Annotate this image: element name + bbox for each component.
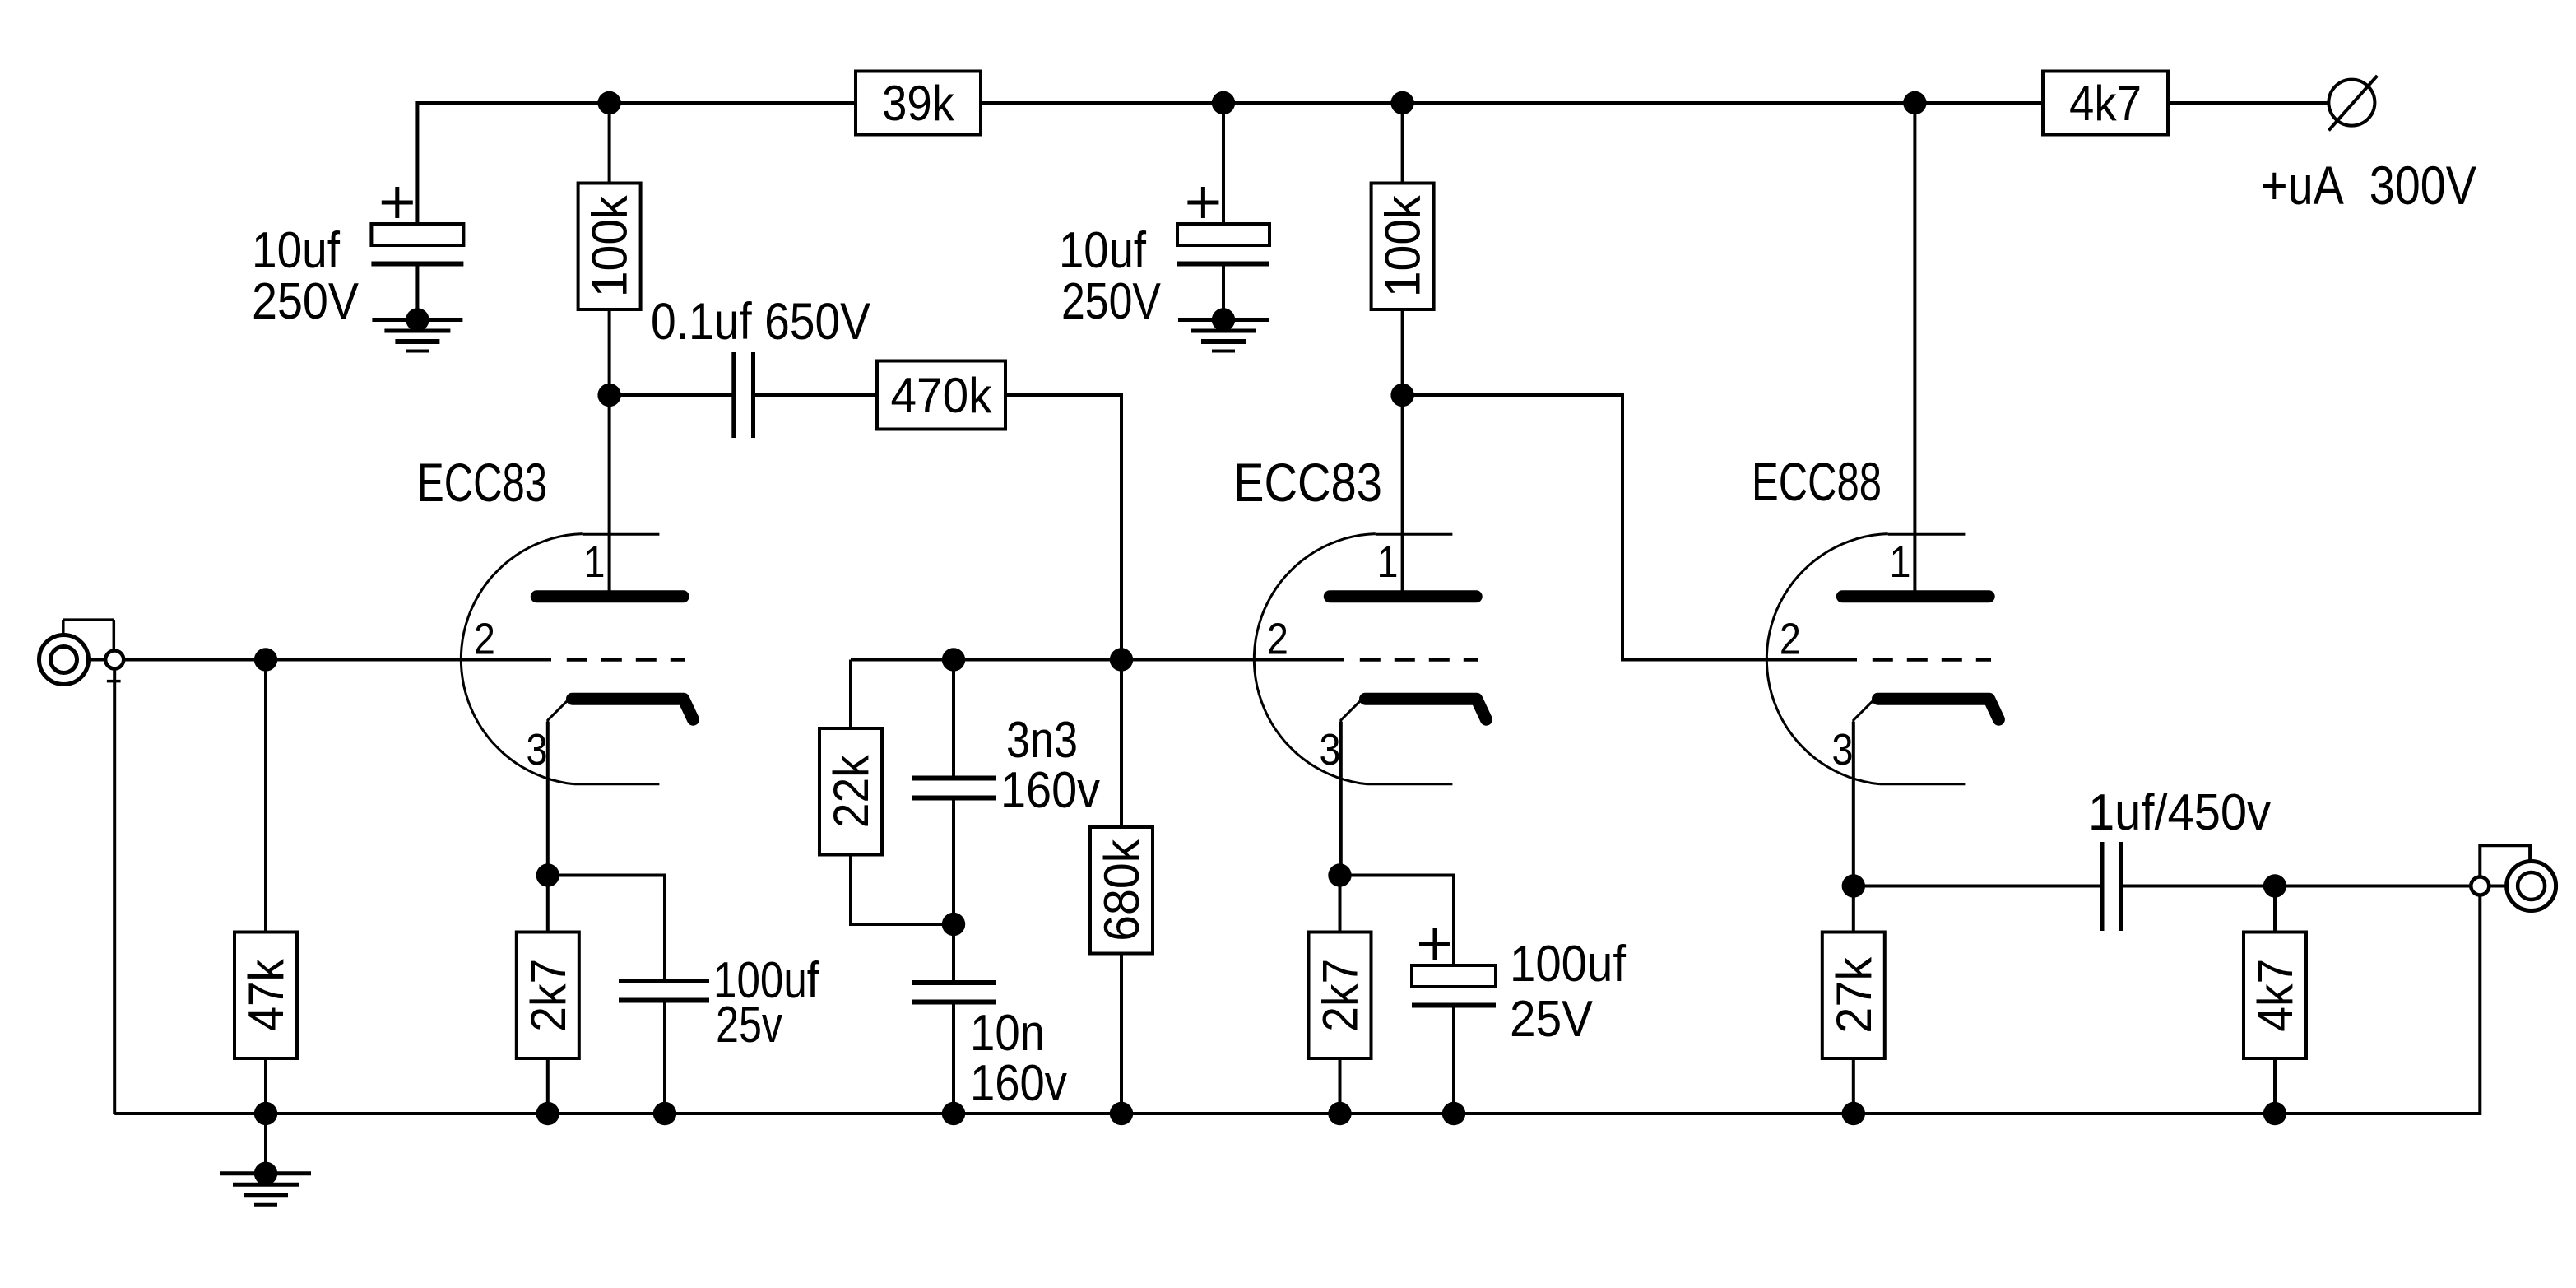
node top rail / ECC88 plate <box>1903 91 1926 114</box>
wire V2 cathode node to bypass cap <box>1340 876 1455 966</box>
wire 4k7 R11 top lead <box>2273 886 2277 932</box>
node rail / 27k <box>1842 1102 1865 1125</box>
svg-text:160v: 160v <box>970 1055 1067 1112</box>
wire 3n3 bottom lead to node <box>952 800 955 924</box>
node output / 4k7 load <box>2263 874 2286 897</box>
wire 2k7 R4 bottom lead <box>546 1058 550 1114</box>
output jack J2 (RCA) <box>2471 845 2555 910</box>
label C1 value 10uf <box>252 222 341 279</box>
svg-text:22k: 22k <box>824 754 879 828</box>
wire input jack sleeve tick <box>107 680 121 683</box>
wire ECC88 plate lead from top rail <box>1913 103 1916 597</box>
svg-text:250V: 250V <box>1061 273 1162 330</box>
wire 100k R6 top lead <box>1401 103 1404 184</box>
capacitor C4 10uf 250V (electrolytic, right PSU) <box>1177 187 1269 264</box>
svg-text:ECC88: ECC88 <box>1752 451 1882 512</box>
wire 2k7 R8 top lead <box>1339 876 1342 932</box>
label V1 tube type ECC83 <box>417 452 547 513</box>
wire grid node row (22k top to V2 grid) <box>851 658 1344 662</box>
svg-text:250V: 250V <box>252 273 360 330</box>
wire V2 cathode lead <box>1339 722 1343 876</box>
wire output node to 1uf cap <box>1854 885 2100 888</box>
triode V2 ECC83 (second stage) <box>1254 534 1486 784</box>
wire 22k top lead <box>849 660 852 729</box>
wire 47k top lead from input node <box>264 660 267 932</box>
svg-text:+uA 300V: +uA 300V <box>2261 155 2476 216</box>
capacitor C6 10n 160v (RIAA) <box>912 983 996 1002</box>
wire 680k bottom lead <box>1120 953 1123 1114</box>
svg-text:4k7: 4k7 <box>2248 959 2303 1032</box>
svg-text:10n: 10n <box>970 1005 1045 1062</box>
svg-text:470k: 470k <box>891 368 993 423</box>
capacitor C2 0.1uf 650V (coupling) <box>734 352 754 438</box>
wire plate node V1 to coupling cap <box>610 393 734 397</box>
wire input jack sleeve down <box>113 669 116 1114</box>
wire 470k to grid node corner <box>1005 395 1121 660</box>
svg-text:680k: 680k <box>1094 839 1149 942</box>
ground symbol under 10uf C1 <box>372 308 462 351</box>
wire top rail left segment <box>417 103 856 224</box>
resistor R1 39k (top rail) <box>856 72 981 135</box>
wire 10n top lead <box>952 924 955 980</box>
wire 27k top lead <box>1852 886 1855 932</box>
label C8 value 100uf <box>1510 936 1627 993</box>
label C2 value 0.1uf 650V <box>651 293 870 351</box>
wire 100k R2 bottom lead to plate node <box>608 308 611 395</box>
svg-text:4k7: 4k7 <box>2069 76 2142 131</box>
node top rail / 10uf C4 <box>1212 91 1235 114</box>
resistor R11 4k7 (B+ dropper) <box>2043 72 2168 135</box>
svg-text:ECC83: ECC83 <box>1233 452 1382 513</box>
label C4 value 10uf <box>1059 222 1147 279</box>
node V3 cathode output <box>1842 874 1865 897</box>
svg-text:100uf: 100uf <box>1510 936 1627 993</box>
node rail / 2k7 R8 <box>1328 1102 1351 1125</box>
wire 2k7 R4 top lead <box>546 876 550 932</box>
wire V2 plate lead <box>1401 395 1404 597</box>
resistor R10 27k (V3 cathode) <box>1822 932 1885 1059</box>
wire input signal to V1 grid <box>77 658 551 662</box>
svg-text:2k7: 2k7 <box>521 959 576 1032</box>
node 3n3 top grid row <box>942 648 965 671</box>
resistor R6 22k (RIAA network) <box>819 728 882 855</box>
svg-text:ECC83: ECC83 <box>417 452 547 513</box>
resistor R9 2k7 (V2 cathode) <box>1309 932 1372 1059</box>
resistor R7 680k (RIAA network) <box>1090 827 1153 954</box>
resistor R5 2k7 (V1 cathode) <box>517 932 579 1059</box>
svg-text:39k: 39k <box>882 76 955 131</box>
node 680k top grid row <box>1110 648 1133 671</box>
svg-text:25v: 25v <box>716 997 782 1053</box>
wire 2k7 R8 bottom lead <box>1339 1058 1342 1114</box>
svg-text:160v: 160v <box>1000 762 1100 819</box>
wire top rail middle segment (39k to 4k7) <box>981 101 2043 105</box>
wire 10n bottom lead <box>952 1004 955 1114</box>
node V1 plate <box>597 384 620 407</box>
node rail / 100uf C5 <box>653 1102 676 1125</box>
wire 1uf cap to output jack <box>2123 885 2472 888</box>
wire input node to ground <box>264 1114 267 1174</box>
wire 680k top lead <box>1120 660 1123 828</box>
node V2 cathode <box>1328 863 1351 886</box>
triode V3 ECC88 (third stage) <box>1766 534 1998 784</box>
svg-text:1uf/450v: 1uf/450v <box>2088 784 2271 841</box>
node top rail / 100k R6 <box>1390 91 1413 114</box>
label V3 tube type ECC88 <box>1752 451 1882 512</box>
wire top rail right segment (4k7 to output terminal) <box>2168 101 2329 105</box>
wire V3 cathode lead <box>1852 722 1855 886</box>
node rail / 2k7 R4 <box>536 1102 559 1125</box>
label C3 voltage 160v <box>1000 762 1100 819</box>
node A input grid <box>254 648 277 671</box>
ground symbol under 10uf C4 <box>1178 308 1269 351</box>
node V2 plate <box>1390 384 1413 407</box>
svg-text:25V: 25V <box>1510 991 1594 1048</box>
label terminal +uA 300V <box>2261 155 2476 216</box>
wire V1 cathode lead <box>546 722 550 876</box>
resistor R8 100k (V2 plate load) <box>1372 184 1434 310</box>
label C3 value 3n3 <box>1006 712 1078 769</box>
svg-text:3n3: 3n3 <box>1006 712 1078 769</box>
wire 22k bottom lead to node <box>851 854 954 924</box>
wire V1 cathode node to bypass cap <box>548 876 665 981</box>
label V2 tube type ECC83 <box>1233 452 1382 513</box>
svg-text:27k: 27k <box>1826 956 1882 1034</box>
capacitor C3 3n3 160v (RIAA) <box>912 779 996 798</box>
node rail / 47k <box>254 1102 277 1125</box>
svg-text:10uf: 10uf <box>252 222 341 279</box>
node top rail / 100k R2 <box>597 91 620 114</box>
capacitor C5 100uf 25v (V1 cathode bypass) <box>619 981 709 1001</box>
svg-text:0.1uf 650V: 0.1uf 650V <box>651 293 870 351</box>
wire 100k R2 top lead <box>608 103 611 184</box>
wire 47k bottom lead <box>264 1058 267 1114</box>
resistor R4 47k (input grid leak) <box>234 932 297 1059</box>
resistor R3 470k (coupling) <box>877 361 1005 430</box>
capacitor C1 10uf 250V (electrolytic, left PSU) <box>371 187 463 264</box>
label C8 voltage 25V <box>1510 991 1594 1048</box>
wire V1 plate lead <box>608 395 611 597</box>
node rail / 680k <box>1110 1102 1133 1125</box>
label C6 value 10n <box>970 1005 1045 1062</box>
node rail / 100uf C8 <box>1442 1102 1465 1125</box>
node rail / 4k7 R12 <box>2263 1102 2286 1125</box>
label C5 value 100uf <box>713 952 819 1009</box>
wire 3n3 top lead <box>952 660 955 777</box>
wire 10uf C4 top lead <box>1222 103 1225 224</box>
node 22k/3n3/10n junction <box>942 913 965 936</box>
svg-text:47k: 47k <box>239 958 294 1031</box>
label C4 voltage 250V <box>1061 273 1162 330</box>
node rail / 10n <box>942 1102 965 1125</box>
wire V2 plate node to ECC88 grid <box>1403 395 1857 660</box>
wire 100uf C5 bottom lead <box>663 1002 666 1114</box>
capacitor C7 1uf/450v (output coupling) <box>2102 842 2122 931</box>
wire 27k bottom lead <box>1852 1058 1855 1114</box>
svg-text:2k7: 2k7 <box>1313 959 1368 1032</box>
triode V1 ECC83 (first stage) <box>461 534 693 784</box>
terminal +uA 300V (B+ supply) <box>2328 76 2377 130</box>
wire 4k7 R11 bottom lead <box>2273 1058 2277 1114</box>
wire 100k R6 bottom lead to plate node <box>1401 308 1404 395</box>
wire coupling cap to 470k <box>754 393 878 397</box>
wire between output jack circles <box>2490 885 2518 888</box>
wire 10uf C4 to ground <box>1222 264 1225 320</box>
wire 10uf C1 to ground <box>415 264 419 320</box>
capacitor C8 100uf 25V (V2 cathode bypass, electrolytic) <box>1412 928 1496 1006</box>
label C1 voltage 250V <box>252 273 360 330</box>
resistor R2 100k (V1 plate load) <box>578 184 641 310</box>
node V1 cathode <box>536 863 559 886</box>
label C5 voltage 25v <box>716 997 782 1053</box>
svg-text:100k: 100k <box>583 194 638 297</box>
ground symbol at input node <box>220 1162 311 1205</box>
label C6 voltage 160v <box>970 1055 1067 1112</box>
svg-text:10uf: 10uf <box>1059 222 1147 279</box>
input jack J1 (RCA) <box>39 620 124 684</box>
label C7 value 1uf/450v <box>2088 784 2271 841</box>
resistor R12 4k7 (output load) <box>2244 932 2306 1059</box>
wire bottom ground rail <box>114 895 2480 1114</box>
wire 100uf C8 bottom lead <box>1452 1003 1455 1114</box>
svg-text:100k: 100k <box>1376 194 1431 297</box>
